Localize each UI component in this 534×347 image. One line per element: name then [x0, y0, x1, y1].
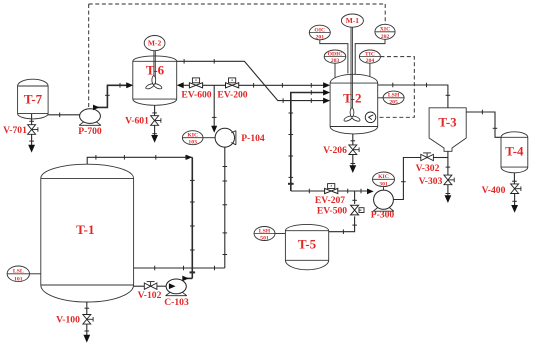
wire P-104 down to T-1 outlet header — [223, 147, 228, 268]
svg-text:LSL: LSL — [13, 269, 24, 275]
arrow into T-6 left — [126, 82, 133, 88]
arrow drain V-601 — [151, 135, 158, 143]
svg-text:EV-500: EV-500 — [317, 206, 347, 217]
instrument LSL-101 — [7, 266, 29, 282]
dashed signal line TIC-204 to temperature element in T-2 — [376, 57, 414, 118]
arrow into P-104 — [211, 126, 217, 133]
signal stem TIC-204 to T-2 — [369, 63, 371, 77]
valve V-206 — [349, 145, 359, 155]
wire T-7 bottom drain — [29, 114, 34, 125]
svg-text:V-302: V-302 — [416, 163, 440, 174]
svg-text:T-4: T-4 — [505, 144, 524, 159]
label V-206 — [323, 145, 347, 156]
control valve EV-207 — [325, 184, 338, 194]
wire EV-500 branch upper — [352, 191, 357, 204]
wire riser to T-2 feed 2 — [288, 90, 327, 191]
arrow into T-2 feed 3 — [323, 98, 330, 104]
svg-text:103: 103 — [188, 140, 197, 146]
svg-text:101: 101 — [14, 276, 23, 282]
wire C-103 discharge — [183, 277, 192, 279]
wire T-1 to V-102 — [134, 285, 145, 287]
label V-302 — [416, 163, 440, 174]
wire T-3 bottom leg — [446, 151, 451, 175]
valve V-100 — [83, 315, 93, 325]
label P-104 — [241, 133, 265, 144]
svg-text:202: 202 — [381, 34, 390, 40]
instrument OIC-201 — [309, 25, 330, 40]
label T-7 — [24, 92, 43, 107]
svg-text:EV-600: EV-600 — [181, 90, 211, 101]
motor M-1 — [341, 14, 363, 27]
instrument KIC-301 — [373, 172, 395, 187]
svg-text:LSH: LSH — [388, 93, 400, 99]
svg-text:V-102: V-102 — [138, 290, 162, 301]
signal stem OIC-201 to T-2 — [320, 40, 348, 74]
hopper T-3 — [429, 108, 466, 152]
control valve EV-500 — [351, 205, 364, 215]
valve V-302 — [421, 153, 434, 161]
svg-text:P-104: P-104 — [241, 133, 265, 144]
label EV-207 — [315, 195, 345, 206]
wire below V-100 — [85, 324, 90, 335]
arrow into T-6 right — [177, 82, 184, 88]
agitator of T-6 — [145, 76, 163, 90]
svg-text:301: 301 — [379, 181, 388, 187]
svg-text:M-2: M-2 — [148, 39, 162, 48]
valve V-701 — [28, 125, 38, 135]
label V-701 — [3, 125, 27, 136]
arrow drain V-303 — [445, 195, 452, 203]
wire T-2 bottom drain — [351, 134, 356, 145]
svg-text:T-1: T-1 — [76, 222, 94, 237]
signal stem KIC-103 to P-104 — [203, 137, 215, 139]
wire below V-206 — [351, 155, 356, 167]
arrow into T-2 feed 1 — [323, 82, 330, 88]
agitator shaft of T-2 — [351, 27, 352, 116]
wire below V-303 — [446, 185, 451, 197]
wire T-2 to T-3 — [378, 83, 451, 108]
pump C-103 — [166, 279, 187, 296]
wire T-6 bottom drain — [152, 105, 157, 116]
svg-text:T-7: T-7 — [24, 92, 43, 107]
label V-601 — [125, 116, 149, 127]
svg-text:M-1: M-1 — [346, 16, 360, 25]
label EV-200 — [217, 90, 247, 101]
wire T-3 to T-4 — [466, 110, 501, 138]
wire EV-207 to P-300 — [338, 189, 369, 194]
dashed signal drop to instrument XIC-202 — [384, 4, 386, 24]
svg-text:T-5: T-5 — [298, 237, 317, 252]
wire below V-601 — [152, 125, 157, 136]
svg-text:501: 501 — [260, 235, 269, 241]
arrow drain V-100 — [83, 335, 90, 343]
label T-5 — [298, 237, 317, 252]
svg-text:201: 201 — [316, 35, 325, 41]
svg-text:ODIC: ODIC — [328, 51, 343, 57]
wire EV-207 run — [291, 189, 325, 194]
instrument TIC-204 — [359, 50, 380, 64]
vessel T-4 — [501, 132, 528, 173]
valve V-303 — [444, 175, 454, 185]
arrow drain V-400 — [511, 205, 518, 213]
wire EV-500 to T-5 — [329, 216, 357, 234]
label EV-500 — [317, 206, 347, 217]
instrument KIC-103 — [182, 131, 203, 146]
pump P-700 — [79, 109, 101, 126]
dashed signal header line across top — [89, 3, 386, 5]
label T-6 — [146, 63, 165, 78]
control valve EV-200 — [226, 78, 239, 88]
signal stem LSL-101 to T-1 — [30, 273, 41, 275]
wire riser x192 (C-103 discharge riser) — [190, 157, 196, 278]
wire EV-600 EV-200 line — [180, 83, 327, 88]
arrow drain V-701 — [28, 145, 35, 153]
agitator of T-2 — [343, 108, 361, 122]
wire below V-400 — [512, 194, 517, 207]
svg-text:P-300: P-300 — [371, 210, 395, 221]
svg-text:EV-200: EV-200 — [217, 90, 247, 101]
wire P-700 discharge to T-6 — [95, 83, 129, 107]
svg-text:OIC: OIC — [314, 27, 325, 33]
wire P-300 discharge — [393, 158, 420, 200]
svg-text:V-701: V-701 — [3, 125, 27, 136]
arrow C-103 discharge — [182, 276, 189, 282]
label V-303 — [419, 176, 443, 187]
signal stem LSH-205 — [378, 97, 383, 99]
svg-text:TIC: TIC — [365, 51, 375, 57]
vessel T-7 — [18, 79, 48, 119]
instrument LSH-501 — [254, 227, 275, 242]
valve V-400 — [511, 184, 521, 194]
svg-text:V-206: V-206 — [323, 145, 347, 156]
instrument LSH-205 — [383, 91, 404, 105]
arrow drain V-206 — [349, 165, 356, 173]
wire T-1 bottom drain — [85, 302, 90, 314]
svg-text:205: 205 — [389, 99, 398, 105]
label C-103 — [164, 297, 189, 308]
label T-4 — [505, 144, 524, 159]
signal stem LSH-501 to T-5 — [275, 233, 285, 235]
label T-3 — [438, 115, 457, 130]
motor M-2 — [144, 36, 165, 51]
label V-100 — [56, 315, 80, 326]
svg-text:V-100: V-100 — [56, 315, 80, 326]
arrow into C-103 — [169, 283, 176, 289]
label P-300 — [371, 210, 395, 221]
signal stem KIC-301 to P-300 — [383, 187, 385, 190]
instrument ODIC-203 — [324, 50, 346, 64]
label P-700 — [78, 126, 102, 137]
svg-text:XIC: XIC — [380, 27, 390, 33]
vessel T-1 — [41, 164, 134, 302]
vessel T-2 — [330, 74, 378, 134]
wire T-1 outlet header — [134, 266, 225, 271]
svg-text:204: 204 — [366, 58, 375, 64]
dashed signal line from top header to pump P-700 — [88, 4, 90, 107]
wire junction to P-104 — [212, 85, 217, 127]
agitator shaft of T-6 — [154, 51, 155, 84]
wire T-1 top loop — [87, 155, 192, 164]
label V-102 — [138, 290, 162, 301]
wire V-102 to C-103 — [157, 285, 169, 287]
signal stem XIC-202 to T-2 — [355, 39, 385, 74]
pump P-300 — [373, 190, 394, 211]
svg-text:203: 203 — [331, 58, 340, 64]
wire T-6 top to T-2 feed 3 — [177, 59, 327, 103]
arrow into T-2 feed 2 — [323, 90, 330, 96]
svg-text:KIC: KIC — [187, 133, 198, 139]
svg-text:KIC: KIC — [378, 174, 389, 180]
temperature element in T-2 — [365, 112, 376, 123]
arrow into P-300 — [367, 189, 374, 195]
svg-text:C-103: C-103 — [164, 297, 189, 308]
svg-text:P-700: P-700 — [78, 126, 102, 137]
svg-text:T-3: T-3 — [438, 115, 457, 130]
svg-text:V-601: V-601 — [125, 116, 149, 127]
svg-text:LSH: LSH — [259, 228, 271, 234]
wire T-7 to P-700 — [48, 113, 80, 118]
valve V-102 — [144, 282, 157, 290]
label V-400 — [482, 185, 506, 196]
vessel T-5 — [285, 224, 328, 269]
wire T-4 bottom drain — [512, 173, 517, 184]
instrument XIC-202 — [375, 24, 395, 40]
arrow on T-1 top loop — [186, 155, 192, 160]
fan P-104 — [215, 128, 236, 147]
svg-text:V-400: V-400 — [482, 185, 506, 196]
signal stem ODIC-203 to T-2 — [334, 63, 336, 78]
label T-2 — [343, 91, 361, 106]
label EV-600 — [181, 90, 211, 101]
arrow P-700 discharge — [93, 105, 100, 111]
wire V-302 to T-3 leg — [433, 157, 448, 159]
vessel T-6 — [133, 56, 177, 105]
svg-text:EV-207: EV-207 — [315, 195, 345, 206]
control valve EV-600 — [189, 78, 202, 88]
valve V-601 — [151, 116, 161, 126]
label T-1 — [76, 222, 94, 237]
svg-text:V-303: V-303 — [419, 176, 443, 187]
wire below V-701 — [29, 134, 34, 145]
